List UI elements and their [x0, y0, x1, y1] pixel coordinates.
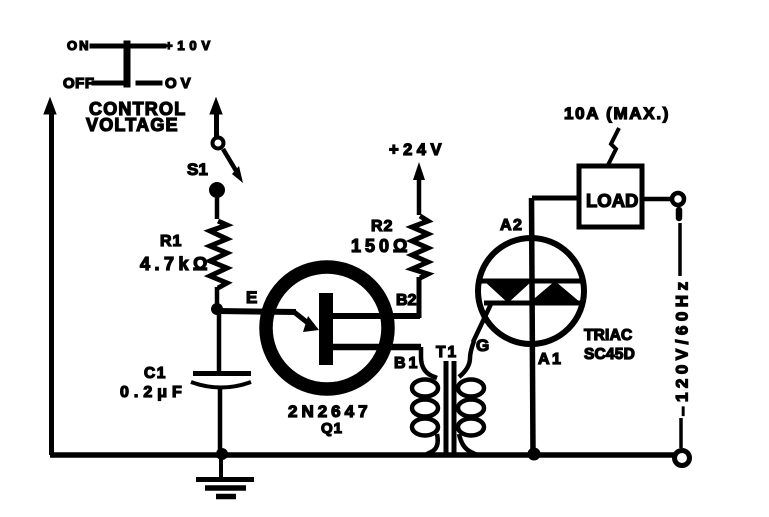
svg-text:LOAD: LOAD: [586, 190, 638, 211]
svg-text:A2: A2: [500, 217, 523, 234]
svg-text:10A (MAX.): 10A (MAX.): [564, 104, 670, 123]
svg-text:G: G: [476, 336, 489, 355]
svg-text:+24V: +24V: [389, 141, 446, 159]
svg-text:OFF: OFF: [63, 75, 95, 92]
svg-text:SC45D: SC45D: [584, 346, 635, 363]
svg-text:OV: OV: [165, 75, 195, 92]
svg-text:B2: B2: [396, 292, 417, 309]
svg-text:ON: ON: [67, 38, 91, 53]
svg-text:150Ω: 150Ω: [351, 236, 411, 256]
svg-text:A1: A1: [538, 351, 563, 368]
svg-text:R2: R2: [371, 218, 393, 235]
svg-text:4.7kΩ: 4.7kΩ: [140, 254, 212, 274]
svg-text:E: E: [246, 288, 257, 307]
svg-text:+10V: +10V: [165, 38, 215, 53]
svg-text:T1: T1: [436, 344, 458, 361]
svg-text:C1: C1: [144, 365, 167, 382]
svg-text:VOLTAGE: VOLTAGE: [86, 115, 179, 135]
svg-text:R1: R1: [160, 233, 182, 250]
svg-text:2N2647: 2N2647: [288, 402, 372, 421]
svg-text:Q1: Q1: [321, 420, 343, 437]
svg-text:0.2μF: 0.2μF: [120, 384, 187, 401]
svg-text:TRIAC: TRIAC: [584, 327, 632, 344]
svg-text:S1: S1: [187, 160, 208, 179]
svg-text:B1: B1: [394, 355, 420, 372]
svg-text:–120V/60Hz: –120V/60Hz: [673, 277, 692, 416]
